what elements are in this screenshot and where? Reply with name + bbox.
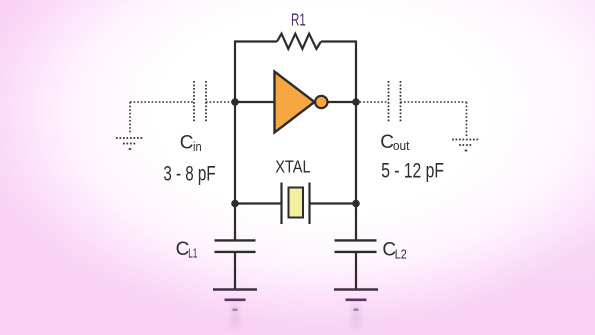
wire (dotted): stray input run — [130, 101, 194, 103]
label CL1 — [176, 239, 198, 261]
node: crystal left junction — [231, 200, 239, 208]
wire (dotted): stray input to node — [206, 101, 235, 103]
wire (dotted): node to stray output cap — [356, 101, 389, 103]
ground left — [213, 290, 257, 310]
wire (dotted): down to stray ground right — [466, 102, 468, 136]
svg-text:XTAL: XTAL — [275, 157, 311, 177]
svg-text:L1: L1 — [188, 247, 197, 261]
svg-text:L2: L2 — [395, 247, 407, 261]
label CL2 — [382, 239, 406, 261]
wire: left vertical (feedback/input rail) — [234, 42, 236, 241]
ground (dotted, stray) left — [116, 138, 144, 149]
wire: crystal right lead — [310, 202, 356, 204]
svg-text:out: out — [393, 138, 410, 153]
inverter U1 (triangle) — [275, 72, 315, 133]
label Cout — [380, 132, 410, 153]
wire: top left segment to resistor — [234, 40, 277, 42]
wire: crystal left lead — [235, 202, 281, 204]
wire: top right segment from resistor — [321, 40, 357, 42]
svg-text:in: in — [193, 140, 202, 154]
wire: CL2 to ground — [355, 252, 357, 289]
node: output (right) junction — [352, 98, 360, 106]
wire (dotted): stray output run — [401, 101, 467, 103]
crystal XTAL — [282, 183, 310, 225]
wire (dotted): down to stray ground left — [129, 102, 131, 135]
capacitor CL2 — [335, 240, 377, 252]
capacitor CL1 — [215, 240, 256, 252]
capacitor Cin (stray, dotted) — [194, 81, 206, 123]
ground (dotted, stray) right — [452, 140, 480, 151]
ground shadow right — [352, 303, 361, 329]
resistor R1 — [277, 34, 321, 49]
inverter U1 output bubble — [315, 96, 327, 108]
svg-text:R1: R1 — [291, 10, 306, 30]
ground right — [334, 290, 378, 310]
node: crystal right junction — [352, 200, 360, 208]
svg-text:C: C — [180, 132, 194, 153]
wire: CL1 to ground — [234, 252, 236, 289]
wire: inverter input — [235, 101, 275, 103]
svg-text:5 - 12 pF: 5 - 12 pF — [381, 159, 444, 182]
node: input (left) junction — [231, 98, 239, 106]
wire: right vertical (output rail) — [355, 42, 357, 241]
svg-text:3 - 8 pF: 3 - 8 pF — [163, 162, 215, 185]
label Cin — [180, 132, 202, 154]
wire: inverter output — [327, 101, 356, 103]
ground shadow left — [231, 303, 240, 329]
svg-text:C: C — [380, 132, 394, 153]
capacitor Cout (stray, dotted) — [389, 81, 401, 123]
